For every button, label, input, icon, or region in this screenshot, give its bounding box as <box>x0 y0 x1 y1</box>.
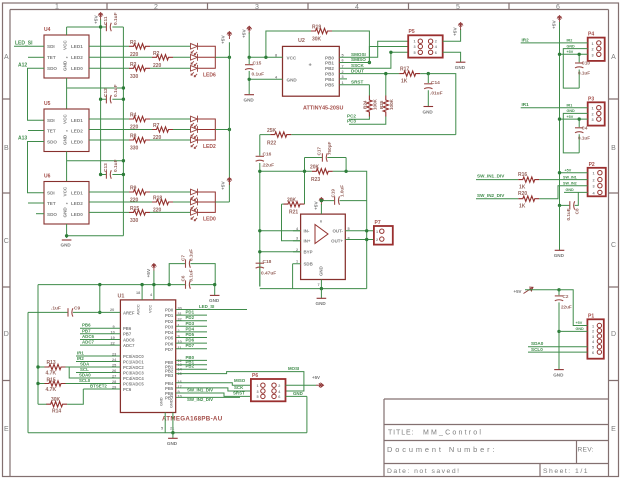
svg-text:GND: GND <box>319 266 324 276</box>
svg-text:+5V: +5V <box>314 201 320 210</box>
frame border inner top <box>10 9 609 11</box>
svg-text:VCC: VCC <box>148 305 153 313</box>
svg-text:3: 3 <box>593 185 595 189</box>
svg-text:LED2: LED2 <box>71 201 83 206</box>
svg-text:1: 1 <box>592 42 594 46</box>
wire P1 pin1 +5 feed <box>559 290 587 326</box>
svg-text:C9: C9 <box>74 306 80 312</box>
svg-text:IR2: IR2 <box>567 39 573 43</box>
svg-text:GND: GND <box>63 60 68 71</box>
wire U1 GND pins to loop <box>165 413 173 433</box>
column ticks top band <box>107 3 509 10</box>
svg-text:LED0: LED0 <box>71 66 83 71</box>
capacitor C16 <box>256 156 264 161</box>
svg-text:3: 3 <box>414 45 416 49</box>
wire U5 bottom to U6 top <box>66 152 68 182</box>
svg-text:18: 18 <box>136 291 140 295</box>
wire U2.PB0 to P5 pin1 (SMOSI) <box>339 41 408 57</box>
svg-text:R1: R1 <box>130 40 137 46</box>
svg-text:SW_IN2_DIV: SW_IN2_DIV <box>477 193 505 198</box>
wire AVCC drop <box>141 285 143 300</box>
svg-text:R4: R4 <box>130 113 137 119</box>
svg-text:20K: 20K <box>310 165 320 171</box>
svg-text:ADC7: ADC7 <box>82 340 95 345</box>
svg-text:GND: GND <box>553 372 564 377</box>
svg-text:4.7K: 4.7K <box>46 387 57 393</box>
wire PB7 SW_IN2_DIV stub <box>176 396 240 398</box>
svg-text:C12: C12 <box>103 88 109 97</box>
svg-text:6: 6 <box>556 4 560 11</box>
wire IN- feed <box>260 230 301 232</box>
svg-text:ATTINY45-20SU: ATTINY45-20SU <box>303 106 343 112</box>
svg-text:P5: P5 <box>409 29 415 35</box>
svg-text:C15: C15 <box>253 61 262 67</box>
svg-text:2: 2 <box>592 330 594 334</box>
capacitor C7 (top branch) <box>169 264 215 285</box>
wire BTSET2 into PC6 <box>83 388 120 390</box>
svg-text:OUT-: OUT- <box>333 229 344 234</box>
wire PB5 SCK to P6 pin3 <box>176 388 251 391</box>
svg-text:P3: P3 <box>588 96 594 102</box>
wire IR1 net into PC0 <box>76 355 120 357</box>
svg-text:PC3/ADC3: PC3/ADC3 <box>123 370 144 375</box>
svg-text:PC4/ADC4: PC4/ADC4 <box>123 376 144 381</box>
svg-text:U4: U4 <box>44 27 51 33</box>
svg-text:GND: GND <box>244 98 255 103</box>
IC U5 (LED driver block B) <box>44 101 89 152</box>
svg-text:+5V: +5V <box>312 375 320 380</box>
svg-text:LED2: LED2 <box>71 129 83 134</box>
svg-text:6: 6 <box>592 351 594 355</box>
wire PB1 <box>176 364 207 366</box>
svg-text:0.1uF: 0.1uF <box>113 159 119 172</box>
svg-text:PC1/ADC1: PC1/ADC1 <box>123 359 144 364</box>
svg-text:1K: 1K <box>401 79 408 85</box>
title block frame <box>384 399 609 477</box>
svg-text:+5V: +5V <box>552 20 558 29</box>
svg-text:2: 2 <box>376 238 378 242</box>
LED array LED0 <box>191 189 198 201</box>
svg-text:TITLE:: TITLE: <box>388 430 414 437</box>
svg-text:R15: R15 <box>47 378 56 384</box>
capacitor C10 <box>578 54 580 88</box>
wire PD3 <box>176 325 207 327</box>
wire +5V rail down to pullup rail <box>37 285 39 367</box>
svg-text:GND: GND <box>567 44 576 48</box>
svg-text:R9: R9 <box>130 186 137 192</box>
svg-text:2: 2 <box>296 248 298 252</box>
column numbers <box>55 4 560 11</box>
wire LED6 common to +5V rail <box>215 56 229 58</box>
wire right +5V rail <box>559 22 561 205</box>
svg-text:C6: C6 <box>181 275 186 281</box>
svg-text:VCC: VCC <box>63 186 68 196</box>
svg-text:R7: R7 <box>153 123 160 129</box>
wire PD4 <box>176 331 207 333</box>
svg-text:P1: P1 <box>588 313 594 319</box>
wire audio input rail <box>260 134 456 136</box>
svg-text:MOSI: MOSI <box>288 366 299 371</box>
svg-text:VCC: VCC <box>287 55 297 60</box>
wire IR2 net into PC1 <box>76 361 120 363</box>
svg-text:PD5: PD5 <box>186 332 195 337</box>
svg-text:IR2: IR2 <box>522 37 530 42</box>
resistor R22 <box>270 132 291 137</box>
wire IR1 into P3 pin1 <box>521 107 588 109</box>
wire P4 pin3 +5V <box>560 53 588 55</box>
wire SCL net into PC3 <box>76 372 120 374</box>
svg-text:C14: C14 <box>431 80 440 86</box>
svg-text:0.1uF: 0.1uF <box>566 208 571 220</box>
vertical joins C17/R23 left <box>304 158 306 205</box>
title block text <box>387 430 594 475</box>
svg-text:GND: GND <box>209 298 220 303</box>
svg-text:GND: GND <box>159 397 164 406</box>
+5V symbol U2 <box>247 26 252 34</box>
wire block B top rail <box>67 87 124 89</box>
resistor R18 <box>89 201 152 203</box>
svg-text:R16: R16 <box>518 172 527 178</box>
svg-text:B: B <box>4 145 9 152</box>
svg-text:GND: GND <box>566 188 575 192</box>
capacitor C12 <box>106 95 111 103</box>
resistor R4 <box>89 118 129 120</box>
wire block C cap rail <box>101 174 124 176</box>
svg-text:R22: R22 <box>267 140 276 146</box>
svg-text:7: 7 <box>318 283 320 287</box>
wire block A top rail <box>67 26 124 28</box>
svg-text:IN-: IN- <box>304 229 310 234</box>
svg-text:PB3: PB3 <box>325 72 334 77</box>
svg-text:PD2: PD2 <box>165 319 174 324</box>
wire R15 to PC5 (SCL0) <box>66 383 121 385</box>
svg-text:+5V: +5V <box>567 115 574 119</box>
svg-text:TET: TET <box>47 55 56 60</box>
wire U6.SDO stub <box>36 213 44 215</box>
svg-text:SDO: SDO <box>47 66 57 71</box>
svg-text:PD0: PD0 <box>165 308 174 313</box>
wire PD2 <box>176 320 207 322</box>
svg-text:PD5: PD5 <box>165 336 174 341</box>
svg-text:+5V: +5V <box>242 29 248 38</box>
svg-text:PC5/ADC5: PC5/ADC5 <box>123 381 144 386</box>
ground below C2 <box>554 369 564 371</box>
svg-text:MM_Control: MM_Control <box>423 430 483 437</box>
wire P2 pin1 +5V <box>560 172 588 174</box>
svg-text:GND: GND <box>567 109 576 113</box>
wire pullup common vertical <box>37 367 39 404</box>
capacitor C6 (inline on rail) <box>186 284 191 286</box>
+5V symbol above U1 <box>151 264 156 272</box>
svg-text:6: 6 <box>278 395 280 399</box>
svg-text:R3: R3 <box>130 62 137 68</box>
svg-text:2: 2 <box>592 112 594 116</box>
frame border inner right <box>608 10 610 477</box>
wire IR2 into P4 pin1 <box>521 42 588 44</box>
wire PB6 net <box>80 327 120 329</box>
op-amp/IC U2 ATTINY45 <box>275 38 344 112</box>
svg-text:PB6: PB6 <box>82 323 91 328</box>
svg-text:750pF: 750pF <box>327 142 332 155</box>
svg-text:SDI: SDI <box>47 44 55 49</box>
svg-text:3: 3 <box>296 237 298 241</box>
svg-text:PD7: PD7 <box>165 347 174 352</box>
svg-text:LED_SI: LED_SI <box>15 41 33 47</box>
svg-text:SDA0: SDA0 <box>531 341 544 346</box>
pin stubs U3 left <box>293 231 301 252</box>
wire gnd loop left vertical <box>27 312 29 432</box>
svg-text:PD4: PD4 <box>186 326 195 331</box>
svg-text:1: 1 <box>592 325 594 329</box>
svg-text:1: 1 <box>593 172 595 176</box>
svg-text:MISO: MISO <box>234 378 246 383</box>
ground below U1 <box>172 433 174 439</box>
svg-text:100K: 100K <box>373 98 378 110</box>
svg-text:GND: GND <box>455 65 466 70</box>
row ticks left band <box>3 99 11 381</box>
svg-text:6: 6 <box>320 220 322 224</box>
svg-text:LED0: LED0 <box>203 217 216 223</box>
capacitor C8 <box>560 192 579 205</box>
svg-text:1: 1 <box>55 4 59 11</box>
svg-text:ADC7: ADC7 <box>123 343 135 348</box>
wire P3 pin3 +5V <box>560 118 588 120</box>
svg-text:GND: GND <box>61 243 72 248</box>
wire PB0 <box>176 359 207 361</box>
wire U2.GND left <box>249 78 282 80</box>
svg-text:5: 5 <box>257 395 259 399</box>
svg-text:0.1uF: 0.1uF <box>252 72 265 78</box>
svg-text:ADC6: ADC6 <box>82 334 95 339</box>
wire +5V rail above U1 <box>38 284 215 286</box>
svg-text:4: 4 <box>355 4 359 11</box>
wire P3 pin2 GND loop <box>563 113 587 152</box>
row letters <box>4 54 616 433</box>
svg-text:A12: A12 <box>18 63 27 69</box>
wire R19 to PB1 net <box>332 31 369 63</box>
svg-text:AVCC: AVCC <box>136 304 141 315</box>
svg-text:A: A <box>611 54 616 61</box>
svg-text:TET: TET <box>47 129 56 134</box>
resistor R17 <box>399 71 420 76</box>
svg-text:PD7: PD7 <box>186 343 195 348</box>
svg-text:0.47uF: 0.47uF <box>261 271 276 277</box>
wire R13 to PC2 (SDA) <box>66 366 121 368</box>
svg-text:0.1uF: 0.1uF <box>113 84 119 97</box>
wire LED +5V vertical rail <box>228 42 230 202</box>
svg-text:3: 3 <box>592 335 594 339</box>
wire LED0 common <box>215 201 229 203</box>
connector P6 <box>251 373 286 401</box>
ground below C15 <box>244 94 254 96</box>
svg-text:C19: C19 <box>331 189 336 198</box>
wire U4.TET stub <box>28 56 44 58</box>
wire PD1 <box>176 314 207 316</box>
svg-text:330: 330 <box>130 218 139 224</box>
wire U2.PB1 to P5 pin3 (SMISO) <box>339 47 408 63</box>
ground below C14 <box>424 106 434 108</box>
svg-text:E: E <box>4 426 9 433</box>
wire U6.TET stub <box>28 202 44 204</box>
svg-text:REV:: REV: <box>578 447 594 454</box>
wire U2.PB5 (SRST) <box>339 84 369 86</box>
resistor R21 (20K into IN+) <box>282 203 284 205</box>
svg-text:IN+: IN+ <box>304 239 311 244</box>
svg-text:8: 8 <box>275 53 277 57</box>
svg-text:SW_IN1_DIV: SW_IN1_DIV <box>187 388 213 393</box>
wire IN+ feed <box>282 204 301 241</box>
svg-text:PB2: PB2 <box>186 364 195 369</box>
svg-text:SW_IN1_DIV: SW_IN1_DIV <box>477 174 505 179</box>
wire P1 pin2 GND <box>559 330 587 332</box>
svg-text:SDA0: SDA0 <box>79 373 91 378</box>
svg-text:LED1: LED1 <box>71 44 83 49</box>
ground below U3 <box>320 289 322 299</box>
svg-text:IR1: IR1 <box>522 102 530 107</box>
svg-text:5: 5 <box>592 346 594 350</box>
svg-text:IR1: IR1 <box>567 103 573 107</box>
svg-text:PC3: PC3 <box>347 119 356 124</box>
svg-text:R13: R13 <box>47 360 56 366</box>
svg-text:SW_IN2: SW_IN2 <box>563 181 577 185</box>
svg-text:PB4: PB4 <box>325 77 334 82</box>
resistor R9 <box>89 191 129 193</box>
svg-text:+5V: +5V <box>453 27 459 36</box>
svg-text:PB7: PB7 <box>165 396 174 401</box>
svg-text:21: 21 <box>170 427 174 431</box>
wire gnd loop bottom <box>28 432 307 434</box>
svg-text:C: C <box>4 238 9 245</box>
wire LED2 common to +5V rail <box>215 129 229 131</box>
svg-text:+5V: +5V <box>146 268 152 277</box>
svg-text:ATMEGA168PB-AU: ATMEGA168PB-AU <box>162 416 223 423</box>
svg-text:PB6: PB6 <box>123 326 132 331</box>
wire block B cap rail <box>101 98 124 100</box>
svg-text:PD1: PD1 <box>186 310 195 315</box>
svg-text:R19: R19 <box>312 25 321 31</box>
svg-text:LED2: LED2 <box>71 55 83 60</box>
wire U5.TET stub <box>28 130 44 132</box>
svg-text:SMOSI: SMOSI <box>351 52 366 57</box>
svg-text:PB2: PB2 <box>325 66 334 71</box>
wire right rail to GND <box>559 205 561 250</box>
resistor R14 <box>46 402 67 407</box>
svg-text:1: 1 <box>257 384 259 388</box>
svg-text:330: 330 <box>130 146 139 152</box>
wire P6 pin6 to gnd loop <box>286 395 307 397</box>
wire PB7 net <box>80 333 120 335</box>
svg-text:SDA: SDA <box>80 362 90 367</box>
svg-text:100K: 100K <box>389 98 394 110</box>
svg-text:*: * <box>66 129 68 134</box>
svg-text:1: 1 <box>376 230 378 234</box>
resistor R20 <box>476 198 518 200</box>
wire VCC drop <box>153 271 155 300</box>
svg-text:P6: P6 <box>252 373 258 379</box>
svg-text:1K: 1K <box>519 185 526 191</box>
U1 pin numbers <box>110 291 183 431</box>
svg-text:P7: P7 <box>375 220 381 226</box>
capacitor C11 <box>106 23 111 31</box>
svg-text:0.1uF: 0.1uF <box>189 269 194 281</box>
svg-text:*: * <box>66 202 68 207</box>
wire OUT- to P7 <box>345 230 374 232</box>
svg-text:2: 2 <box>435 40 437 44</box>
svg-text:1.0uF: 1.0uF <box>340 185 345 197</box>
svg-text:B: B <box>611 145 616 152</box>
connector P2 <box>588 162 606 197</box>
svg-text:GND: GND <box>63 207 68 218</box>
capacitor C13 <box>106 170 111 178</box>
svg-text:+5V: +5V <box>221 181 227 190</box>
+5V symbol LED rail lower <box>227 178 232 186</box>
svg-text:SCL: SCL <box>80 367 89 372</box>
svg-text:OUT+: OUT+ <box>331 239 343 244</box>
svg-text:.01uF: .01uF <box>430 91 443 97</box>
wire P2 pin4 GND <box>564 191 588 193</box>
LED array LED6 <box>191 43 198 55</box>
svg-text:PB7: PB7 <box>123 332 132 337</box>
ground right of P5 <box>456 61 466 63</box>
resistor R8 <box>89 139 129 141</box>
junction +5V rail at block A rail <box>99 25 102 28</box>
svg-text:5: 5 <box>348 227 350 231</box>
LED array LED2 <box>191 116 198 128</box>
svg-text:5: 5 <box>161 427 163 431</box>
IC U4 (LED driver block A) <box>44 27 89 78</box>
connector P7 <box>374 220 393 245</box>
svg-text:PB1: PB1 <box>325 61 334 66</box>
svg-text:SCL0: SCL0 <box>531 347 543 352</box>
wire LED_SI into U4.SDI <box>14 45 44 47</box>
svg-text:PD3: PD3 <box>186 321 195 326</box>
resistor R15a <box>89 211 129 213</box>
svg-text:220: 220 <box>130 198 139 204</box>
svg-text:0.1uF: 0.1uF <box>578 135 590 140</box>
wire P6 pin2 to +5V arrow <box>286 384 317 386</box>
svg-text:25K: 25K <box>267 128 277 134</box>
svg-text:SDI: SDI <box>47 191 55 196</box>
wire GND rail bottom return <box>67 235 124 237</box>
svg-text:GND: GND <box>287 77 298 82</box>
wire PD7 <box>176 348 207 350</box>
wire U4.SDO to U5.SDI (net A12) <box>28 68 45 120</box>
svg-text:30K: 30K <box>51 397 61 403</box>
svg-text:5: 5 <box>414 51 416 55</box>
svg-text:LED1: LED1 <box>71 118 83 123</box>
resistor R1 <box>89 45 129 47</box>
svg-text:0.1uF: 0.1uF <box>189 249 194 261</box>
wire gnd loop right vertical <box>306 396 308 432</box>
svg-text:R25: R25 <box>379 100 384 109</box>
svg-text:D: D <box>4 331 9 338</box>
svg-text:R23: R23 <box>311 177 320 183</box>
svg-text:R2: R2 <box>153 51 160 57</box>
svg-text:PD3: PD3 <box>165 324 174 329</box>
connector P4 <box>588 32 605 61</box>
wire GND rail right of caps <box>122 27 124 236</box>
wire U2.PB3 (DOUT) to R17 <box>339 73 399 75</box>
resistor R16 <box>476 179 518 181</box>
wire P4 pin2 GND loop <box>563 49 587 89</box>
wire PB6 SW_IN1_DIV to P6 pin5 <box>176 393 251 396</box>
wire +5V rail left column <box>100 20 102 175</box>
wire OUT+ to P7 <box>345 239 374 241</box>
svg-text:3: 3 <box>255 4 259 11</box>
svg-text:SDI: SDI <box>47 118 55 123</box>
svg-text:*: * <box>66 56 68 61</box>
svg-text:D: D <box>611 331 616 338</box>
